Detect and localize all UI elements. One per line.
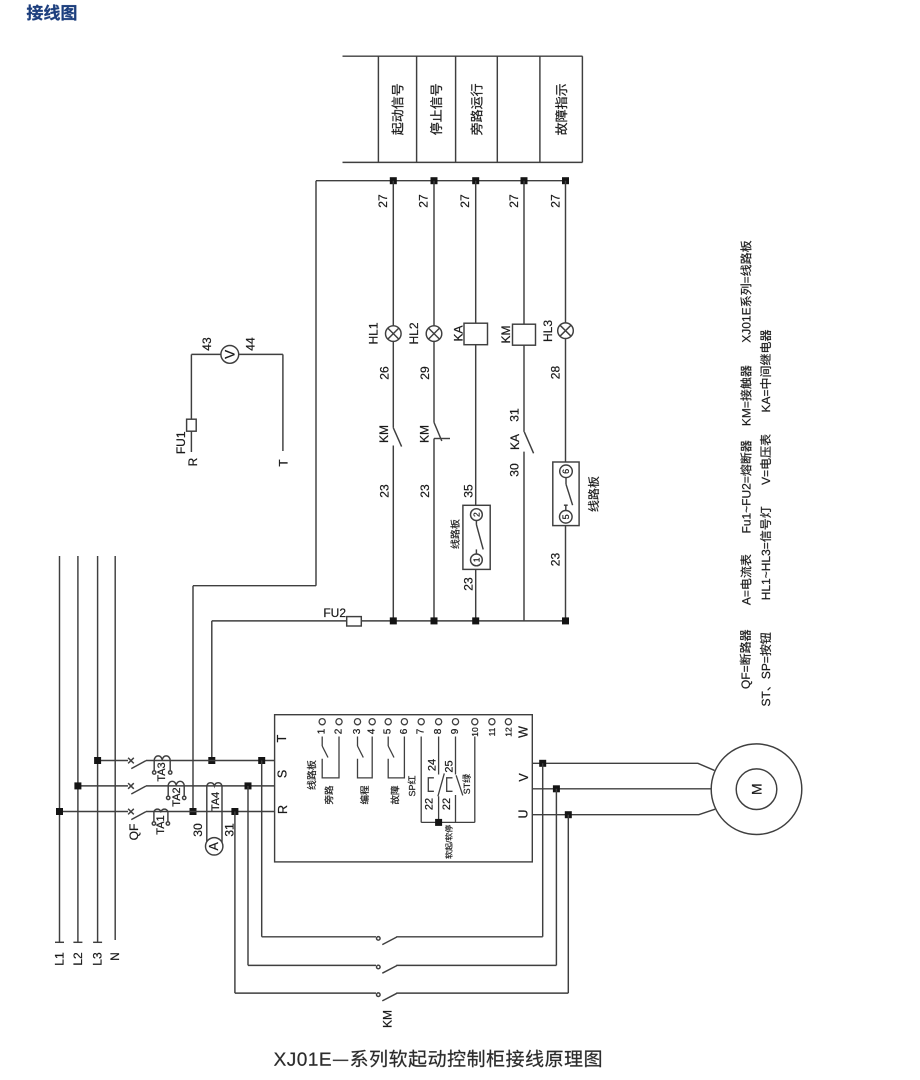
svg-text:30: 30	[191, 823, 205, 837]
wire T row	[98, 760, 128, 762]
svg-text:T: T	[276, 459, 290, 467]
node fu2desc-T	[208, 757, 215, 764]
current transformer TA3	[154, 756, 170, 761]
svg-text:44: 44	[244, 337, 258, 351]
svg-text:29: 29	[418, 366, 432, 380]
svg-text:22: 22	[424, 798, 436, 810]
node button bus	[435, 819, 442, 826]
switch 故障 terminals 5-6	[387, 737, 389, 747]
breaker QF pole S	[128, 783, 134, 789]
svg-text:1: 1	[471, 557, 481, 562]
svg-text:L2: L2	[71, 952, 85, 966]
current transformer TA2	[168, 781, 184, 786]
wire terminal 7 lead	[420, 737, 422, 823]
wire bypass V rise	[555, 789, 557, 966]
pcb box2 线路板	[553, 462, 579, 526]
table label 故障指示	[555, 84, 567, 135]
terminal 4	[369, 719, 375, 725]
terminal 6	[401, 719, 407, 725]
node L3-T	[94, 757, 101, 764]
wire R row	[60, 811, 129, 813]
caption 标题	[274, 1050, 601, 1068]
wire w5 upper	[565, 181, 567, 323]
terminal 12	[505, 719, 511, 725]
svg-text:KA: KA	[451, 325, 465, 341]
svg-text:A: A	[207, 841, 221, 850]
contact KM w1 blade	[393, 428, 401, 447]
relay coil KA	[464, 323, 488, 345]
svg-text:KM: KM	[377, 425, 391, 443]
wire V output	[532, 788, 711, 790]
switch 旁路 terminals 1-2	[321, 737, 323, 747]
node bus-w1	[390, 177, 397, 184]
svg-text:24: 24	[426, 759, 438, 771]
pushbutton SP red blade	[438, 773, 444, 796]
svg-text:23: 23	[418, 484, 432, 498]
node R-bypass	[231, 808, 238, 815]
node fu2bus-w3	[472, 617, 479, 624]
switch 编程 terminals 3-4	[357, 737, 359, 747]
wire voltmeter right horizontal	[239, 353, 283, 355]
wire w1 upper	[392, 181, 394, 326]
motor M outer	[711, 744, 802, 835]
wire w3 lower	[475, 569, 477, 621]
table label 起动信号	[391, 84, 403, 135]
pushbutton SP red lead	[438, 737, 440, 775]
ammeter A	[206, 838, 223, 855]
contactor coil KM	[513, 324, 536, 345]
wire L2	[77, 556, 79, 942]
svg-text:1: 1	[317, 728, 328, 734]
lamp HL3	[558, 323, 574, 339]
contact KM bypass A	[377, 937, 381, 941]
fuse FU1	[187, 419, 197, 431]
svg-text:V: V	[517, 773, 531, 782]
legend line V=电压表	[760, 434, 771, 485]
signal table frame	[343, 56, 583, 162]
pcb box1 线路板	[463, 505, 490, 569]
svg-text:FU1: FU1	[174, 431, 188, 454]
svg-text:23: 23	[378, 484, 392, 498]
label ST绿	[462, 774, 470, 794]
svg-text:M: M	[749, 783, 765, 795]
svg-text:KM: KM	[418, 425, 432, 443]
svg-text:27: 27	[507, 194, 521, 208]
node S-bypass	[245, 782, 252, 789]
svg-text:4: 4	[367, 728, 378, 734]
svg-text:TA4: TA4	[210, 792, 222, 811]
terminal 3	[354, 719, 360, 725]
node control-R	[190, 808, 197, 815]
wire W output	[532, 763, 714, 770]
node fu2bus-w5	[562, 617, 569, 624]
pushbutton ST green actuator	[447, 778, 453, 792]
lamp HL1	[386, 326, 402, 342]
wire w2 lower	[433, 439, 435, 621]
node V-bypass	[553, 785, 560, 792]
legend line HL1~HL3=信号灯	[760, 507, 771, 600]
svg-text:6: 6	[399, 728, 410, 734]
terminal 1	[319, 719, 325, 725]
svg-text:6: 6	[561, 469, 571, 474]
svg-text:27: 27	[549, 194, 563, 208]
wire bypass row C left	[235, 992, 376, 994]
svg-text:HL2: HL2	[407, 322, 421, 344]
wire U output	[532, 809, 715, 815]
pushbutton ST green blade	[456, 775, 463, 795]
wire w4 mid	[523, 345, 525, 432]
terminal 10	[472, 719, 478, 725]
node bus-w2	[431, 177, 438, 184]
svg-text:QF: QF	[127, 824, 141, 841]
wire N	[114, 556, 116, 940]
wire bypass U rise	[567, 815, 569, 993]
wire top bus 27	[316, 180, 566, 182]
current transformer TA1	[154, 809, 168, 811]
label 线路板 box2	[588, 476, 599, 511]
contact KM bypass B	[377, 965, 381, 969]
svg-text:28: 28	[549, 366, 563, 380]
svg-text:R: R	[276, 805, 290, 814]
label 线路板 box	[307, 760, 316, 789]
svg-text:KA: KA	[508, 434, 522, 450]
svg-text:TA2: TA2	[171, 787, 183, 806]
label 旁路	[324, 786, 333, 804]
legend line KM=接触器	[740, 365, 751, 425]
node L1-R	[56, 808, 63, 815]
svg-text:N: N	[108, 952, 122, 961]
wire bypass row A left	[262, 936, 376, 938]
wire bypass row B right	[396, 964, 556, 966]
wire w5 lower	[565, 526, 567, 621]
terminal 7	[418, 719, 424, 725]
pushbutton SP red lower lead	[438, 796, 440, 822]
svg-text:FU2: FU2	[323, 606, 346, 620]
wire w2 upper	[433, 181, 435, 326]
label SP红	[408, 776, 416, 796]
svg-text:23: 23	[462, 577, 476, 591]
pushbutton SP red actuator	[428, 778, 434, 792]
svg-text:27: 27	[458, 194, 472, 208]
wire w1 mid	[392, 341, 394, 427]
wire voltmeter left horizontal	[191, 353, 221, 355]
svg-text:KM: KM	[499, 325, 513, 343]
motor M inner	[736, 769, 777, 810]
svg-text:31: 31	[507, 408, 521, 422]
svg-text:KM: KM	[381, 1010, 395, 1028]
node L2-S	[74, 782, 81, 789]
pushbutton ST green lead	[455, 737, 457, 775]
wire voltmeter right vertical to T terminal	[282, 354, 284, 451]
soft starter box U1	[275, 715, 533, 862]
wire w1 lower	[392, 446, 394, 621]
wire w3 mid	[475, 345, 477, 506]
wire S row	[78, 785, 128, 787]
pushbutton ST green lower lead	[455, 795, 457, 822]
wire control descender vertical from bus	[315, 181, 317, 586]
terminal 5	[385, 719, 391, 725]
svg-text:U: U	[517, 809, 531, 818]
wire FU1 to R terminal	[190, 431, 192, 452]
fuse FU2	[347, 617, 362, 626]
wire FU2 corner descender to T row	[211, 621, 213, 761]
node bus-w5	[562, 177, 569, 184]
svg-text:V: V	[222, 350, 237, 359]
breaker QF pole T	[128, 758, 134, 764]
svg-text:L1: L1	[53, 952, 67, 966]
svg-text:T: T	[275, 734, 289, 742]
svg-text:9: 9	[450, 728, 461, 734]
svg-text:11: 11	[487, 727, 497, 736]
label 编程	[360, 786, 369, 804]
wire w2 mid	[433, 341, 435, 422]
contact KM w2 blade	[434, 422, 442, 441]
legend line XJ01E系列=线路板	[740, 241, 751, 343]
wire w4 upper	[523, 181, 525, 325]
svg-text:10: 10	[470, 727, 480, 737]
title 接线图	[27, 4, 76, 20]
svg-text:22: 22	[441, 798, 453, 810]
voltmeter V	[221, 346, 239, 364]
label 线路板 box1	[450, 519, 459, 548]
lamp HL2	[426, 326, 442, 342]
terminal 9	[452, 719, 458, 725]
node W-bypass	[539, 760, 546, 767]
legend line KA=中间继电器	[760, 330, 771, 412]
svg-text:TA3: TA3	[156, 762, 168, 781]
wire w5 mid	[565, 339, 567, 463]
wire bypass R drop	[234, 812, 236, 994]
svg-text:HL1: HL1	[367, 322, 381, 344]
svg-text:3: 3	[352, 728, 363, 734]
svg-text:R: R	[186, 457, 200, 466]
contact KM bypass C	[377, 993, 381, 997]
wire L1	[59, 556, 61, 942]
svg-text:S: S	[276, 770, 290, 778]
wire FU2 bus	[212, 620, 566, 622]
svg-text:TA1: TA1	[155, 815, 167, 834]
svg-text:2: 2	[334, 728, 345, 734]
svg-text:HL3: HL3	[541, 320, 555, 342]
wire bypass row A right	[396, 936, 542, 938]
legend line A=电流表	[740, 555, 751, 606]
legend line Fu1~FU2=熔断器	[740, 440, 751, 532]
wire bypass row C right	[396, 992, 568, 994]
svg-text:25: 25	[443, 760, 455, 772]
label 软起/软停	[445, 825, 452, 859]
svg-text:27: 27	[376, 194, 390, 208]
wire L3	[97, 556, 99, 942]
svg-text:7: 7	[416, 728, 427, 734]
terminal 8	[436, 719, 442, 725]
terminal 2	[336, 719, 342, 725]
svg-text:2: 2	[471, 512, 481, 517]
svg-text:30: 30	[507, 463, 521, 477]
node T-bypass	[258, 757, 265, 764]
svg-text:23: 23	[549, 553, 563, 567]
current transformer TA4	[207, 783, 222, 786]
table label 旁路运行	[470, 84, 482, 135]
node bus-w3	[472, 177, 479, 184]
svg-text:5: 5	[561, 514, 571, 519]
svg-text:26: 26	[378, 366, 392, 380]
wire w4 lower	[523, 452, 525, 621]
svg-text:12: 12	[503, 727, 513, 737]
wire control descender jog horizontal	[193, 585, 316, 587]
wire terminal 10 lead	[474, 737, 476, 823]
legend line ST、SP=按钮	[760, 633, 771, 706]
wire w3 upper	[475, 181, 477, 324]
svg-text:43: 43	[200, 337, 214, 351]
svg-text:35: 35	[462, 484, 476, 498]
breaker QF pole R	[128, 809, 134, 815]
terminal 11	[489, 719, 495, 725]
svg-text:27: 27	[417, 194, 431, 208]
legend line QF=断路器	[740, 630, 752, 689]
contact KA w4 blade	[524, 432, 533, 453]
svg-text:L3: L3	[91, 952, 105, 966]
node fu2bus-w1	[390, 617, 397, 624]
wire voltmeter left vertical	[190, 354, 192, 419]
node fu2bus-w2	[431, 617, 438, 624]
table label 停止信号	[430, 84, 442, 135]
wire control descender to R row	[192, 586, 194, 812]
wire bypass S drop	[247, 786, 249, 966]
node U-bypass	[565, 811, 572, 818]
wire bypass W rise	[542, 763, 544, 937]
node bus-w4	[521, 177, 528, 184]
svg-text:W: W	[517, 726, 531, 738]
label 故障	[391, 786, 400, 804]
svg-text:5: 5	[383, 728, 394, 734]
wire bypass T drop	[261, 761, 263, 937]
svg-text:8: 8	[433, 728, 444, 734]
wire button bus	[421, 821, 475, 823]
wire bypass row B left	[248, 964, 376, 966]
